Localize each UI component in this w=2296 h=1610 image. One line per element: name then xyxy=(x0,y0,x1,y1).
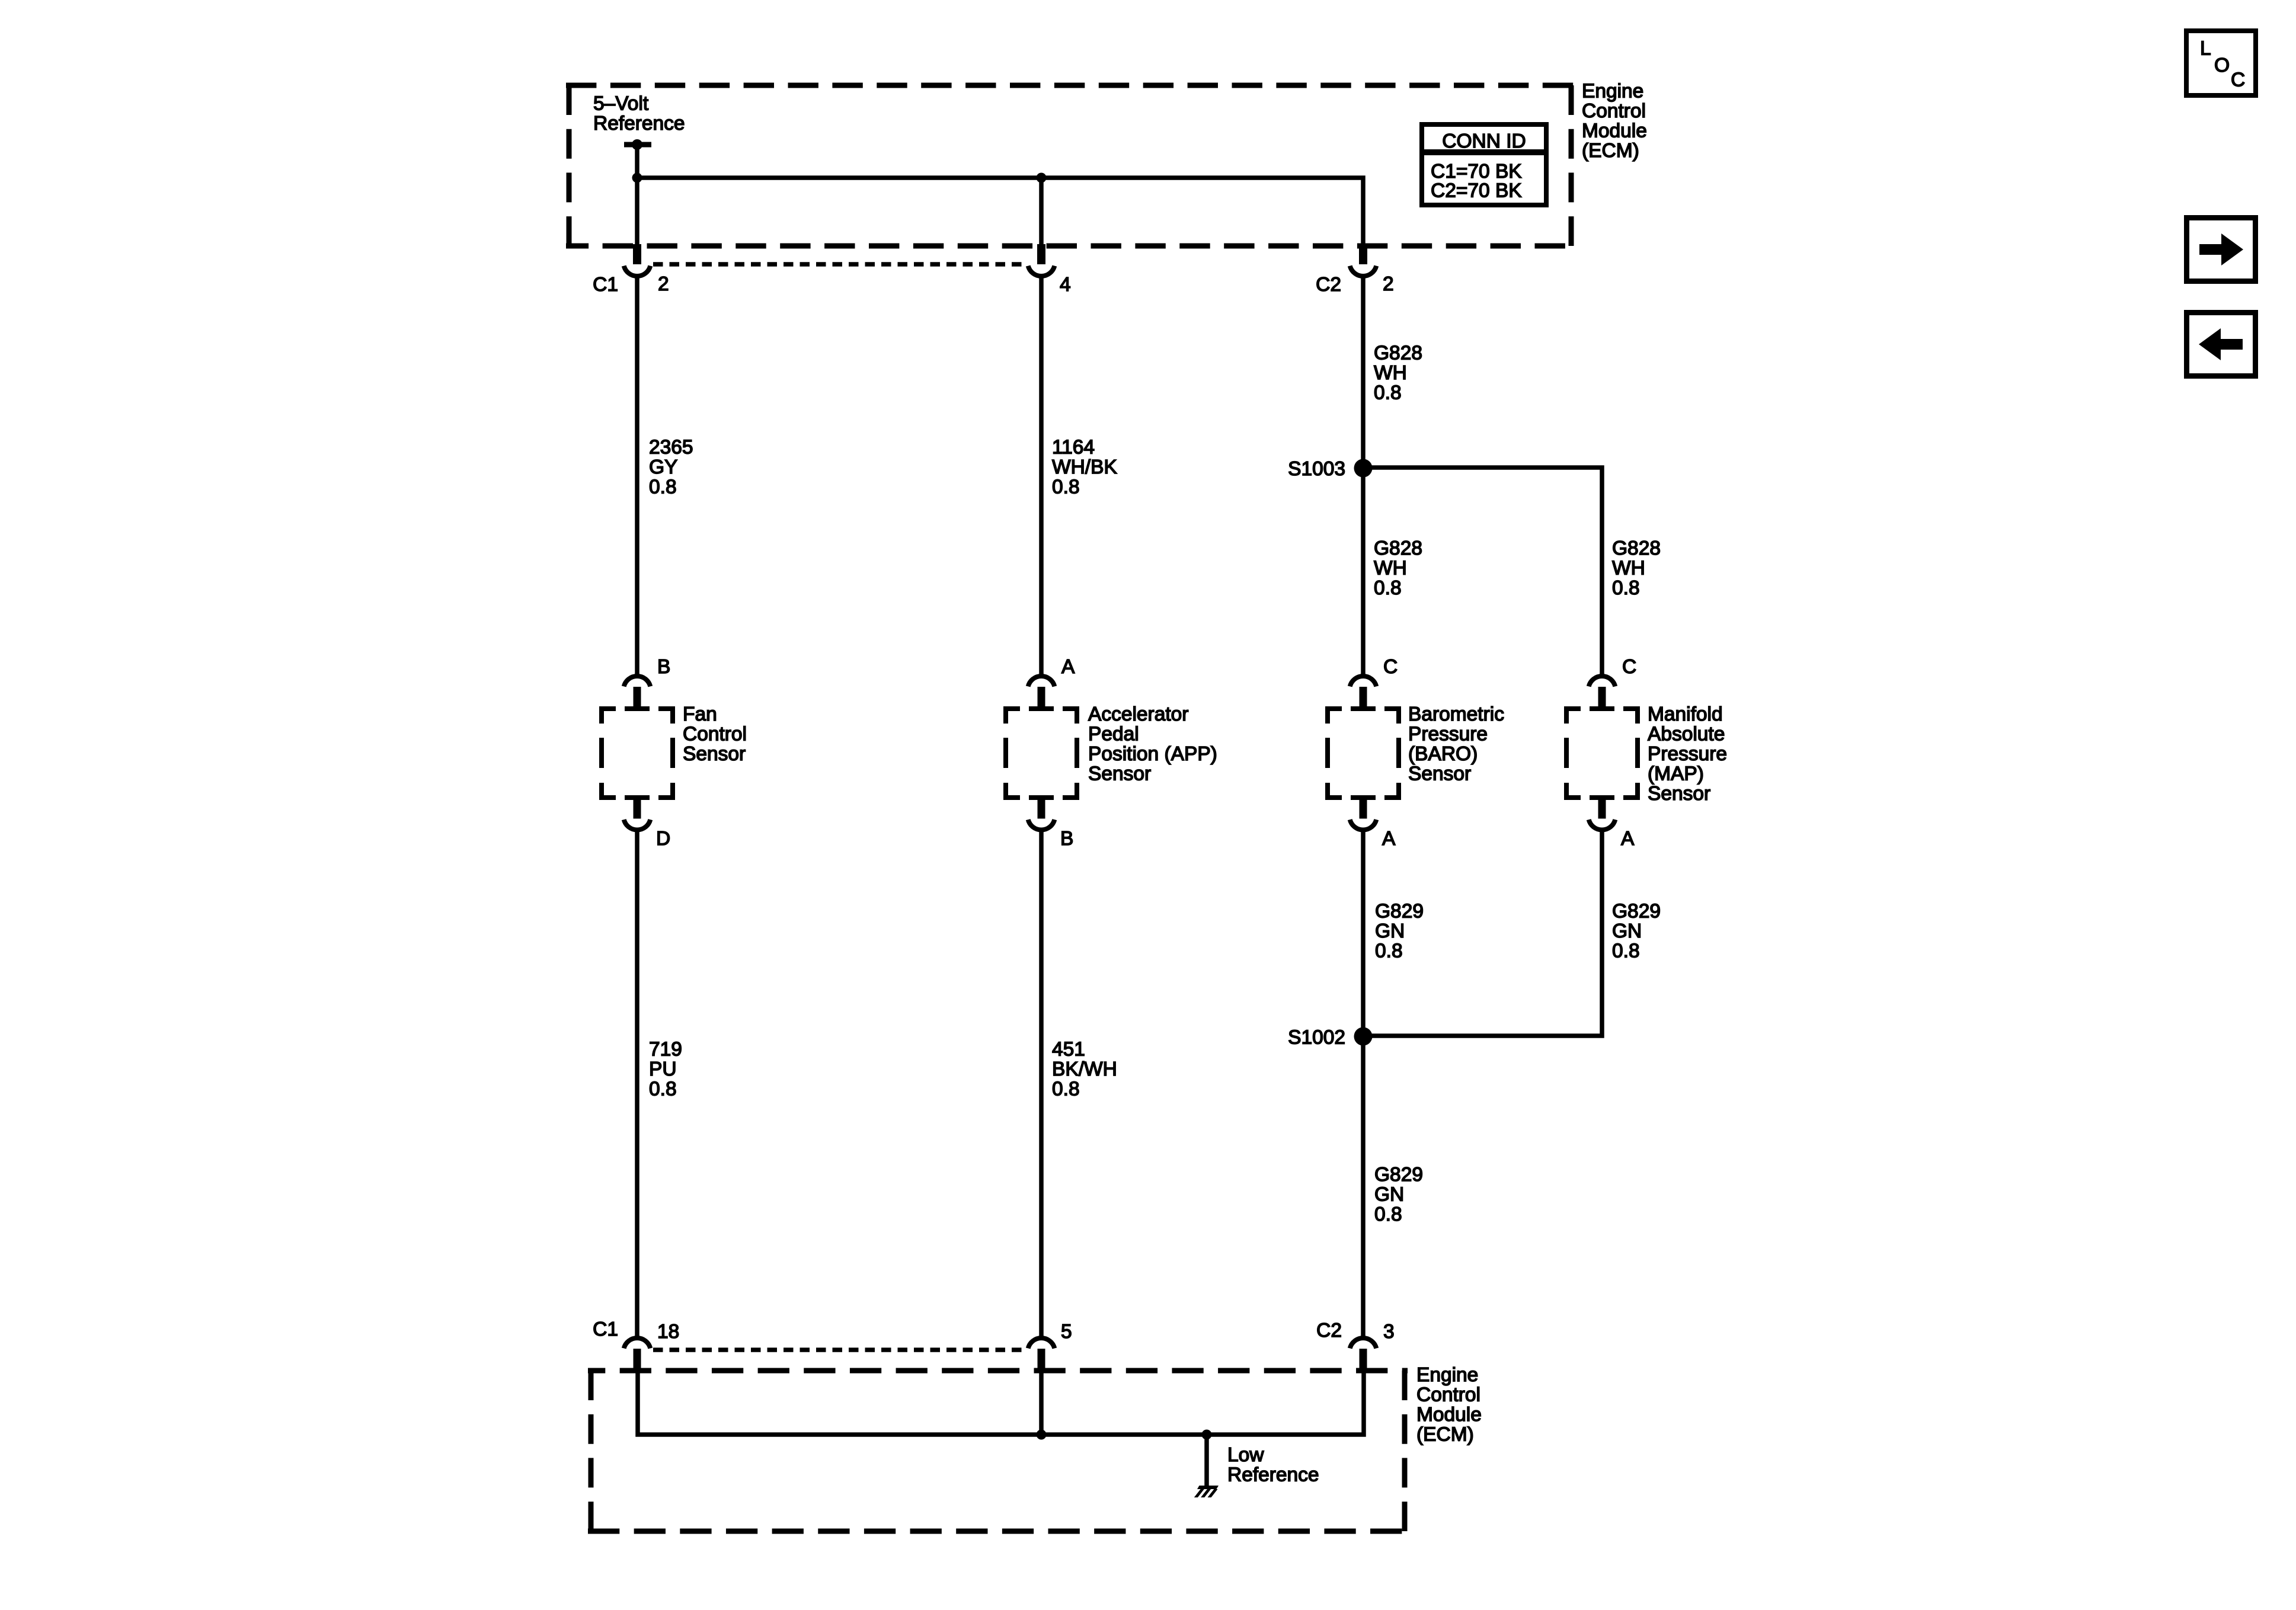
svg-text:0.8: 0.8 xyxy=(1374,577,1402,599)
svg-text:Control: Control xyxy=(1416,1384,1480,1406)
Engine Control Module (ECM) top dashed box xyxy=(566,85,1574,246)
svg-text:4: 4 xyxy=(1060,274,1071,296)
svg-text:0.8: 0.8 xyxy=(649,1078,677,1100)
svg-text:0.8: 0.8 xyxy=(1052,476,1080,498)
svg-text:C2: C2 xyxy=(1316,1320,1342,1342)
svg-text:O: O xyxy=(2214,55,2230,76)
svg-text:1164: 1164 xyxy=(1052,437,1095,459)
svg-text:2: 2 xyxy=(1383,273,1394,295)
Barometric Pressure Sensor dashed box xyxy=(1328,709,1399,798)
svg-text:G829: G829 xyxy=(1375,901,1424,923)
svg-text:Control: Control xyxy=(1582,100,1646,122)
connector D Fan Control Sensor xyxy=(634,796,641,819)
Accelerator Pedal Position Sensor dashed box xyxy=(1006,709,1077,798)
Manifold Absolute Pressure Sensor dashed box xyxy=(1566,709,1638,798)
svg-text:Accelerator: Accelerator xyxy=(1088,703,1188,725)
wire W4 MAP sensor to S1002 xyxy=(1363,830,1602,1036)
junction node wire2/trunk xyxy=(1037,173,1047,183)
svg-text:Pressure: Pressure xyxy=(1648,743,1727,765)
wire W3 ECM to S1003 xyxy=(1361,276,1366,468)
splice S1003 xyxy=(1354,459,1373,478)
svg-text:719: 719 xyxy=(649,1039,682,1061)
svg-text:C1=70 BK: C1=70 BK xyxy=(1431,161,1522,183)
in-harness dotted line C1-18 to pin 5 xyxy=(653,1347,1025,1352)
svg-text:C: C xyxy=(2231,69,2245,91)
svg-text:G828: G828 xyxy=(1374,343,1422,364)
svg-text:Fan: Fan xyxy=(683,703,717,725)
wire W2 into bottom ECM to bus xyxy=(1039,1371,1044,1435)
svg-text:Absolute: Absolute xyxy=(1648,724,1725,745)
CONN ID table xyxy=(1419,122,1549,207)
ground stem wire xyxy=(1204,1435,1209,1486)
svg-text:C: C xyxy=(1622,656,1636,678)
svg-text:GN: GN xyxy=(1612,920,1642,942)
ground symbol xyxy=(1197,1486,1219,1489)
svg-text:2365: 2365 xyxy=(649,437,693,459)
svg-text:G829: G829 xyxy=(1374,1164,1423,1186)
svg-text:451: 451 xyxy=(1052,1039,1085,1061)
svg-text:Reference: Reference xyxy=(1227,1464,1319,1486)
svg-text:GN: GN xyxy=(1374,1184,1404,1206)
junction node W2/bus xyxy=(1037,1430,1047,1440)
connector B APP Sensor xyxy=(1038,796,1045,819)
svg-text:S1003: S1003 xyxy=(1288,458,1345,480)
svg-text:5–Volt: 5–Volt xyxy=(593,93,649,115)
connector C2 pin 2 xyxy=(1359,244,1367,264)
svg-text:WH: WH xyxy=(1612,558,1645,580)
svg-text:Engine: Engine xyxy=(1416,1364,1478,1386)
svg-text:B: B xyxy=(1060,828,1073,850)
svg-text:A: A xyxy=(1621,828,1635,850)
Engine Control Module (ECM) bottom dashed box xyxy=(588,1371,1408,1531)
LOC icon box xyxy=(2184,28,2258,98)
splice wire S1003 to MAP branch xyxy=(1363,468,1602,674)
splice S1002 xyxy=(1354,1028,1373,1046)
Fan Control Sensor dashed box xyxy=(602,709,673,798)
wire W1 inside ECM xyxy=(635,178,639,245)
svg-text:A: A xyxy=(1382,828,1396,850)
svg-text:CONN ID: CONN ID xyxy=(1442,130,1526,152)
wire W3 S1003 to BARO xyxy=(1361,468,1366,674)
svg-text:G828: G828 xyxy=(1612,537,1661,559)
5V reference trunk wire xyxy=(635,145,639,178)
svg-text:C: C xyxy=(1383,656,1398,678)
svg-text:C2=70 BK: C2=70 BK xyxy=(1431,180,1522,202)
wire W3 S1002 to ECM C2-3 xyxy=(1361,1036,1366,1337)
svg-text:Reference: Reference xyxy=(593,113,685,135)
connector C1 pin 18 xyxy=(634,1349,641,1373)
svg-text:0.8: 0.8 xyxy=(1375,940,1403,962)
svg-text:Manifold: Manifold xyxy=(1648,703,1723,725)
low reference bus wire xyxy=(638,1369,1364,1435)
right arrow icon xyxy=(2184,215,2258,284)
wire W1 Fan sensor to ECM C1-18 xyxy=(635,830,639,1337)
junction node ground/bus xyxy=(1202,1430,1212,1440)
wire W1 ECM to Fan Control Sensor xyxy=(635,276,639,674)
svg-text:0.8: 0.8 xyxy=(1374,1204,1402,1225)
svg-text:Sensor: Sensor xyxy=(1088,763,1151,785)
svg-text:C1: C1 xyxy=(593,1318,618,1340)
svg-text:GY: GY xyxy=(649,456,677,478)
svg-text:0.8: 0.8 xyxy=(1612,577,1640,599)
connector A BARO Sensor xyxy=(1360,796,1367,819)
svg-text:C2: C2 xyxy=(1316,274,1341,296)
left arrow icon xyxy=(2184,310,2258,379)
svg-text:Position (APP): Position (APP) xyxy=(1088,743,1217,765)
svg-text:Sensor: Sensor xyxy=(1408,763,1471,785)
connector B Fan Control Sensor xyxy=(634,687,641,711)
connector A MAP Sensor xyxy=(1598,796,1606,819)
svg-text:L: L xyxy=(2200,38,2211,60)
svg-text:Pedal: Pedal xyxy=(1088,724,1139,745)
svg-text:BK/WH: BK/WH xyxy=(1052,1058,1117,1080)
svg-text:S1002: S1002 xyxy=(1288,1027,1345,1049)
svg-text:PU: PU xyxy=(649,1058,677,1080)
svg-text:2: 2 xyxy=(658,273,669,295)
svg-text:C1: C1 xyxy=(593,274,618,296)
svg-text:0.8: 0.8 xyxy=(1374,382,1402,404)
connector C2 pin 3 xyxy=(1360,1349,1367,1373)
svg-text:Barometric: Barometric xyxy=(1408,703,1504,725)
svg-text:(BARO): (BARO) xyxy=(1408,743,1478,765)
svg-text:18: 18 xyxy=(657,1321,679,1343)
svg-text:WH/BK: WH/BK xyxy=(1052,456,1117,478)
svg-text:WH: WH xyxy=(1374,362,1407,384)
in-harness dotted line C1-2 to C1-4 xyxy=(653,262,1025,267)
connector C1 pin 4 xyxy=(1037,244,1045,264)
svg-text:Module: Module xyxy=(1582,120,1647,142)
svg-text:Control: Control xyxy=(683,724,747,745)
svg-text:Engine: Engine xyxy=(1582,81,1643,103)
svg-text:WH: WH xyxy=(1374,558,1407,580)
wire W2 APP sensor to ECM pin 5 xyxy=(1039,830,1044,1337)
5-Volt Reference terminal T-bar xyxy=(624,142,651,148)
svg-text:B: B xyxy=(657,656,670,678)
connector pin 5 xyxy=(1038,1349,1045,1373)
connector C MAP Sensor xyxy=(1598,687,1606,711)
connector A APP Sensor xyxy=(1038,687,1045,711)
junction node wire1/trunk xyxy=(632,173,642,183)
svg-text:(ECM): (ECM) xyxy=(1416,1424,1474,1446)
svg-text:(ECM): (ECM) xyxy=(1582,140,1639,162)
svg-text:G828: G828 xyxy=(1374,537,1422,559)
wire W3 BARO sensor to S1002 xyxy=(1361,830,1366,1036)
svg-text:(MAP): (MAP) xyxy=(1648,763,1704,785)
svg-text:0.8: 0.8 xyxy=(1612,940,1640,962)
svg-text:GN: GN xyxy=(1375,920,1405,942)
connector C1 pin 2 xyxy=(633,244,641,264)
svg-text:Sensor: Sensor xyxy=(1648,783,1710,805)
wire W2 inside ECM xyxy=(1039,178,1044,245)
svg-text:Pressure: Pressure xyxy=(1408,724,1488,745)
svg-text:A: A xyxy=(1061,656,1075,678)
svg-text:D: D xyxy=(656,828,670,850)
svg-text:3: 3 xyxy=(1383,1321,1395,1343)
wire W2 ECM to APP Sensor xyxy=(1039,276,1044,674)
svg-text:5: 5 xyxy=(1061,1321,1072,1343)
svg-text:Sensor: Sensor xyxy=(683,743,746,765)
svg-text:G829: G829 xyxy=(1612,901,1661,923)
connector C BARO Sensor xyxy=(1360,687,1367,711)
svg-text:0.8: 0.8 xyxy=(1052,1078,1080,1100)
svg-text:Module: Module xyxy=(1416,1404,1482,1426)
svg-text:0.8: 0.8 xyxy=(649,476,677,498)
svg-text:Low: Low xyxy=(1227,1444,1264,1466)
